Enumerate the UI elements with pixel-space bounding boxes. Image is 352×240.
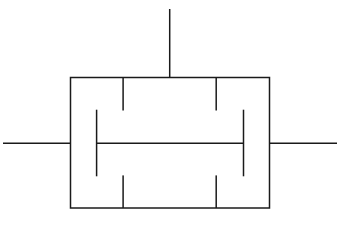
wire: left lead (pin 1 input) [3, 142, 71, 144]
left electrode plate [96, 110, 98, 177]
wire: internal electrode bar [97, 142, 244, 144]
wire: right lead (pin 3 output) [270, 142, 338, 144]
wire: top lead (pin 2 common) [169, 9, 171, 78]
right electrode plate [243, 110, 245, 177]
top-right internal stub [215, 78, 217, 111]
bottom-left internal stub [122, 175, 124, 208]
top-left internal stub [122, 78, 124, 111]
ceramic filter U1 enclosure [71, 78, 270, 209]
bottom-right internal stub [215, 175, 217, 208]
